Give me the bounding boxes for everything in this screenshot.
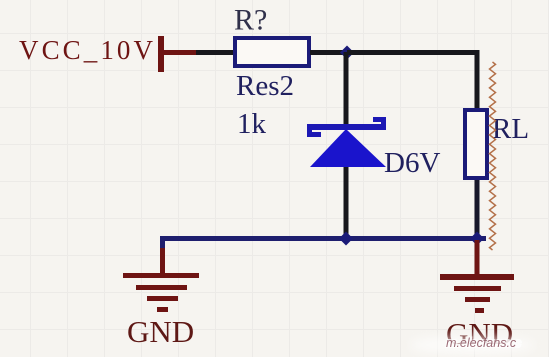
power port bar symbol	[158, 36, 196, 72]
zener diode D1 label D6V	[384, 147, 440, 179]
svg-text:D6V: D6V	[384, 147, 440, 179]
right ground symbol	[440, 274, 514, 313]
resistor R1 value 1k	[237, 108, 267, 140]
svg-text:GND: GND	[127, 314, 194, 349]
resistor R1 body	[235, 38, 309, 66]
svg-text:RL: RL	[492, 113, 529, 145]
left ground label GND	[127, 314, 194, 349]
node C junction bottom center	[339, 232, 353, 246]
wire RL to bottom node B	[475, 180, 480, 240]
svg-text:Res2: Res2	[236, 70, 294, 102]
left ground stem	[160, 248, 165, 276]
resistor R1 comment Res2	[236, 70, 294, 102]
resistor RL body	[465, 110, 487, 178]
node A junction	[340, 46, 354, 60]
zener diode D1 cathode bar	[307, 117, 386, 137]
node B junction bottom right	[470, 232, 484, 246]
svg-text:R?: R?	[234, 4, 267, 37]
wire zener to bottom rail	[344, 167, 349, 239]
bottom rail wire	[160, 236, 486, 241]
wire node A down to zener	[344, 52, 349, 124]
error squiggle along RL net	[490, 62, 496, 250]
wire node A to right corner	[347, 53, 477, 109]
zener diode D1 triangle	[310, 129, 386, 167]
svg-text:m.elecfans.c: m.elecfans.c	[446, 336, 517, 350]
watermark	[410, 336, 534, 354]
power port VCC_10V label	[19, 35, 154, 65]
left ground symbol	[123, 273, 199, 312]
right ground label GND	[446, 316, 513, 351]
left rail corner	[160, 236, 165, 249]
wire R? to node A	[310, 50, 345, 55]
wire port to R?	[196, 50, 235, 55]
right ground stem	[475, 240, 480, 276]
svg-text:1k: 1k	[237, 108, 267, 140]
resistor RL label	[492, 113, 529, 145]
resistor R1 designator R?	[234, 4, 267, 37]
